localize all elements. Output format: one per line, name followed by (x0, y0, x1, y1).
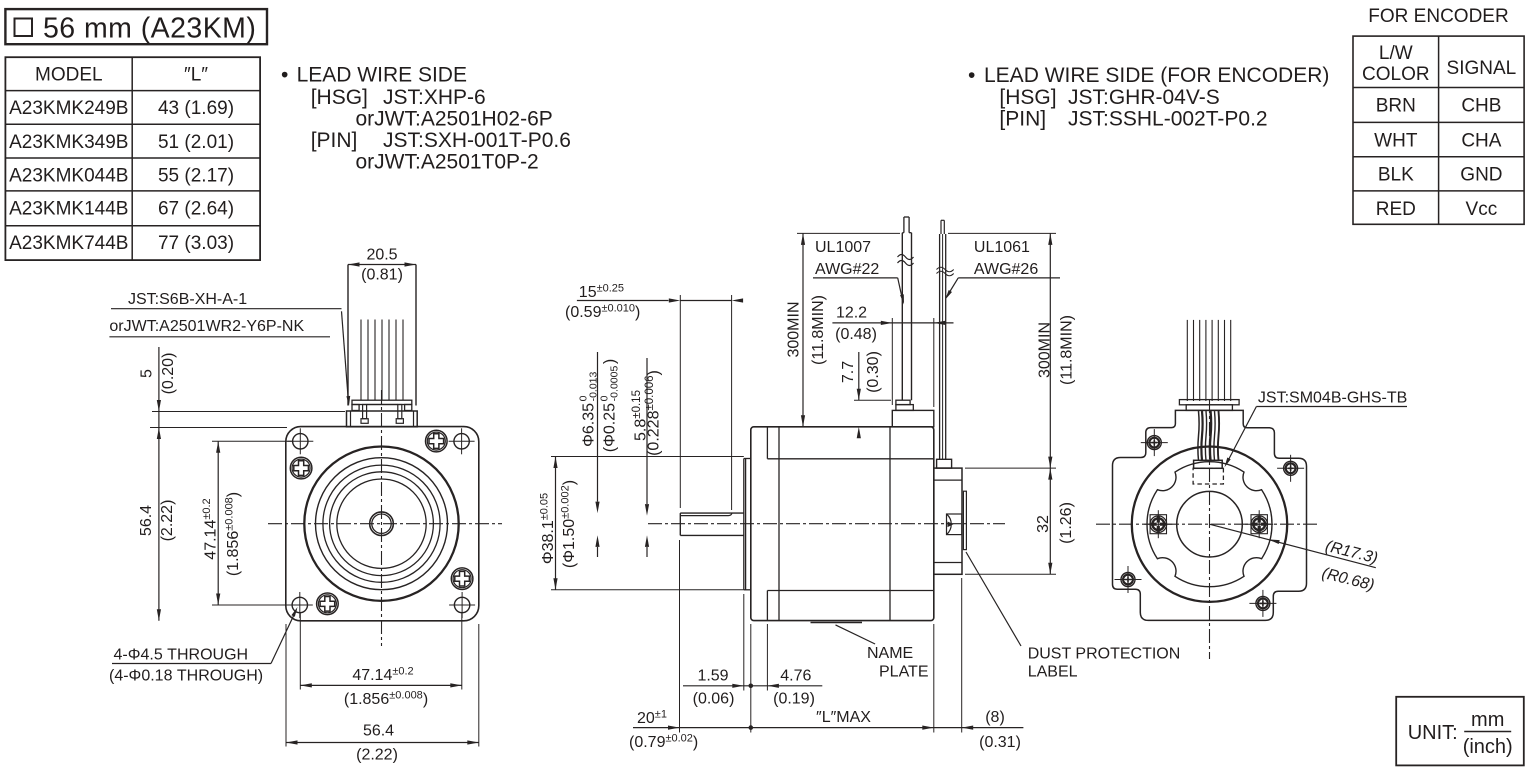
svg-text:orJWT:A2501H02-6P: orJWT:A2501H02-6P (356, 108, 553, 131)
svg-text:20.5: 20.5 (366, 247, 397, 264)
svg-text:32: 32 (1035, 515, 1052, 533)
radius R17.3 leader (1210, 524, 1376, 568)
svg-text:JST:SXH-001T-P0.6: JST:SXH-001T-P0.6 (383, 129, 571, 152)
front view square flange (286, 427, 479, 621)
svg-text:GND: GND (1460, 165, 1502, 186)
svg-text:FOR ENCODER: FOR ENCODER (1368, 6, 1508, 27)
rotated dim texts phi6.35 / 5.8 (578, 371, 600, 446)
title box 56 mm (A23KM) (5, 9, 267, 44)
dimension 7.7 (0.30) (858, 352, 860, 400)
svg-text:(0.06): (0.06) (693, 691, 735, 708)
mounting hole top-left (293, 434, 308, 449)
dimension 5.8 (646, 358, 648, 504)
svg-text:(11.8MIN): (11.8MIN) (810, 295, 827, 365)
svg-text:[HSG]: [HSG] (999, 86, 1056, 109)
svg-text:A23KMK044B: A23KMK044B (9, 166, 128, 187)
svg-text:A23KMK249B: A23KMK249B (9, 98, 128, 119)
svg-text:(0.48): (0.48) (835, 326, 877, 343)
svg-text:PLATE: PLATE (879, 664, 929, 681)
svg-text:JST:S6B-XH-A-1: JST:S6B-XH-A-1 (128, 291, 247, 308)
front shaft circle phi6.35 (370, 512, 394, 536)
mounting hole top-right (454, 434, 469, 449)
svg-text:UL1061: UL1061 (974, 239, 1030, 256)
side motor lead connector (892, 410, 934, 426)
rear bolt bottom-left (1121, 573, 1135, 587)
dimension 300MIN left (802, 233, 804, 426)
svg-text:AWG#22: AWG#22 (815, 261, 879, 278)
rear big circle (1132, 447, 1287, 602)
svg-text:MODEL: MODEL (35, 65, 103, 86)
dimension 47.14 (1.856) bottom (299, 612, 301, 690)
svg-text:(0.81): (0.81) (361, 267, 403, 284)
dimension 15 (0.59) (577, 300, 669, 302)
svg-text:LABEL: LABEL (1028, 664, 1078, 681)
rear connector hidden outline (1193, 468, 1223, 484)
svg-text:mm: mm (1471, 709, 1504, 731)
svg-text:JST:GHR-04V-S: JST:GHR-04V-S (1068, 86, 1220, 109)
side view front boss (743, 459, 745, 590)
dimension 20.5 (0.81) (348, 264, 416, 266)
svg-text:56.4: 56.4 (138, 505, 155, 536)
name plate line (811, 622, 863, 624)
svg-text:JST:SM04B-GHS-TB: JST:SM04B-GHS-TB (1258, 390, 1407, 407)
svg-text:(0.31): (0.31) (979, 734, 1021, 751)
rear bolt bottom-right (1256, 596, 1270, 610)
dimension 12.2 (0.48) (832, 322, 953, 324)
svg-text:(8): (8) (985, 709, 1005, 726)
svg-text:Vcc: Vcc (1466, 199, 1498, 220)
dimension phi38.1 (555, 457, 557, 590)
front connector body (347, 411, 418, 427)
svg-text:1.59: 1.59 (697, 668, 728, 685)
svg-text:51 (2.01): 51 (2.01) (158, 132, 234, 153)
front boss circle phi38.1 (316, 458, 448, 590)
mounting hole bottom-left (292, 597, 307, 612)
rear view centerlines (1096, 523, 1320, 525)
svg-text:CHB: CHB (1461, 96, 1501, 117)
front view centerlines (268, 523, 502, 525)
svg-text:COLOR: COLOR (1362, 64, 1430, 85)
svg-text:56 mm (A23KM): 56 mm (A23KM) (43, 13, 256, 45)
rear bolt top-right (1284, 461, 1298, 475)
svg-text:•: • (968, 64, 975, 87)
side view motor body (751, 427, 934, 621)
bottom dimensions row (679, 540, 681, 733)
side view shaft (680, 512, 744, 514)
svg-text:LEAD WIRE SIDE: LEAD WIRE SIDE (297, 64, 467, 87)
motor lead wire UL1007 (901, 233, 903, 401)
dimension 20 / L MAX / (8) (633, 727, 1023, 729)
svg-text:Φ6.35: Φ6.35 (581, 403, 598, 447)
svg-text:A23KMK744B: A23KMK744B (9, 233, 128, 254)
rear screw left (1150, 515, 1166, 534)
svg-text:″L″: ″L″ (184, 65, 208, 86)
svg-text:SIGNAL: SIGNAL (1447, 58, 1517, 79)
svg-text:(2.22): (2.22) (159, 500, 176, 542)
dimension 1.59 / 4.76 (683, 685, 822, 687)
encoder lead wire UL1061 (939, 234, 941, 459)
front lead wire bundle (347, 265, 349, 406)
svg-text:[PIN]: [PIN] (311, 129, 358, 152)
svg-text:77 (3.03): 77 (3.03) (158, 233, 234, 254)
svg-text:43 (1.69): 43 (1.69) (158, 98, 234, 119)
svg-text:67 (2.64): 67 (2.64) (158, 198, 234, 219)
rear screw right (1251, 515, 1267, 534)
svg-text:(Φ0.25: (Φ0.25 (602, 403, 619, 452)
side view centerline (648, 523, 1005, 525)
dimension 32 (1.26) (1049, 468, 1051, 574)
svg-text:L/W: L/W (1379, 43, 1413, 64)
wire break symbol (898, 255, 914, 266)
svg-text:(2.22): (2.22) (356, 747, 398, 764)
front motor face circle (304, 447, 458, 601)
svg-text:DUST PROTECTION: DUST PROTECTION (1028, 646, 1181, 663)
svg-text:): ) (602, 359, 619, 364)
dust protection label strip (963, 491, 966, 549)
svg-text:-0.0005: -0.0005 (609, 366, 621, 402)
front ring circles (323, 465, 440, 582)
svg-text:orJWT:A2501WR2-Y6P-NK: orJWT:A2501WR2-Y6P-NK (109, 318, 304, 335)
side encoder housing (934, 468, 962, 574)
svg-text:UNIT:: UNIT: (1408, 722, 1458, 744)
dimension 56.4 (2.22) bottom (285, 624, 287, 747)
svg-text:UL1007: UL1007 (815, 239, 871, 256)
svg-text:BRN: BRN (1376, 96, 1416, 117)
svg-text:12.2: 12.2 (836, 305, 867, 322)
rear twisted encoder wires (1198, 411, 1199, 460)
svg-text:WHT: WHT (1374, 130, 1418, 151)
svg-text:A23KMK144B: A23KMK144B (9, 198, 128, 219)
svg-text:A23KMK349B: A23KMK349B (9, 132, 128, 153)
phillips screw front top-right (426, 430, 448, 452)
svg-text:JST:XHP-6: JST:XHP-6 (383, 86, 486, 109)
phillips screw front bottom-right (451, 568, 473, 590)
svg-text:(11.8MIN): (11.8MIN) (1058, 315, 1075, 385)
svg-text:[HSG]: [HSG] (311, 86, 368, 109)
unit box (1396, 697, 1524, 766)
svg-text:(1.26): (1.26) (1058, 502, 1075, 544)
svg-text:NAME: NAME (867, 645, 913, 662)
rear hub circle (1177, 491, 1243, 557)
model table (5, 57, 260, 260)
dimension phi6.35 (597, 352, 599, 502)
svg-text:300MIN: 300MIN (1036, 322, 1053, 378)
rear housing stepped outline (1113, 410, 1307, 620)
mounting hole bottom-right (454, 597, 469, 612)
side encoder connector (937, 459, 952, 468)
svg-text:7.7: 7.7 (840, 361, 857, 383)
encoder shaft detail (947, 514, 962, 535)
svg-text:[PIN]: [PIN] (999, 108, 1046, 131)
svg-text:4.76: 4.76 (780, 668, 811, 685)
svg-text:(0.30): (0.30) (865, 351, 882, 393)
front connector pins (363, 405, 367, 419)
svg-text:(0.19): (0.19) (773, 691, 815, 708)
svg-text:56.4: 56.4 (363, 723, 394, 740)
dimension 47.14 (1.856) vertical (217, 441, 219, 605)
svg-text:300MIN: 300MIN (785, 301, 802, 357)
phillips screw front top-left (290, 457, 312, 479)
rear scalloped cover plate R17.3 (1147, 462, 1272, 587)
svg-text:BLK: BLK (1378, 165, 1414, 186)
svg-text:LEAD WIRE SIDE (FOR ENCODER): LEAD WIRE SIDE (FOR ENCODER) (984, 64, 1329, 87)
wire break symbol (937, 267, 954, 276)
svg-text:4-Φ4.5 THROUGH: 4-Φ4.5 THROUGH (114, 647, 249, 664)
svg-text:orJWT:A2501T0P-2: orJWT:A2501T0P-2 (356, 151, 539, 174)
svg-text:(0.20): (0.20) (160, 353, 177, 395)
svg-text:(4-Φ0.18 THROUGH): (4-Φ0.18 THROUGH) (109, 668, 263, 685)
rear wire bundle (1186, 320, 1188, 401)
svg-text:JST:SSHL-002T-P0.2: JST:SSHL-002T-P0.2 (1068, 108, 1268, 131)
svg-text:55 (2.17): 55 (2.17) (158, 166, 234, 187)
svg-text:(inch): (inch) (1463, 736, 1513, 758)
svg-text:AWG#26: AWG#26 (974, 261, 1038, 278)
svg-text:5: 5 (139, 369, 156, 378)
svg-text:CHA: CHA (1461, 130, 1501, 151)
rear bolt top-left (1147, 436, 1161, 450)
dimension 300MIN right (1049, 233, 1051, 468)
svg-text:RED: RED (1376, 199, 1416, 220)
svg-text:″L″MAX: ″L″MAX (816, 709, 871, 726)
dimension 5 (0.20) and 56.4 (2.22) left (158, 347, 160, 621)
svg-text:•: • (281, 64, 288, 87)
phillips screw front bottom-left (317, 593, 339, 615)
rear encoder connector (1194, 460, 1223, 468)
